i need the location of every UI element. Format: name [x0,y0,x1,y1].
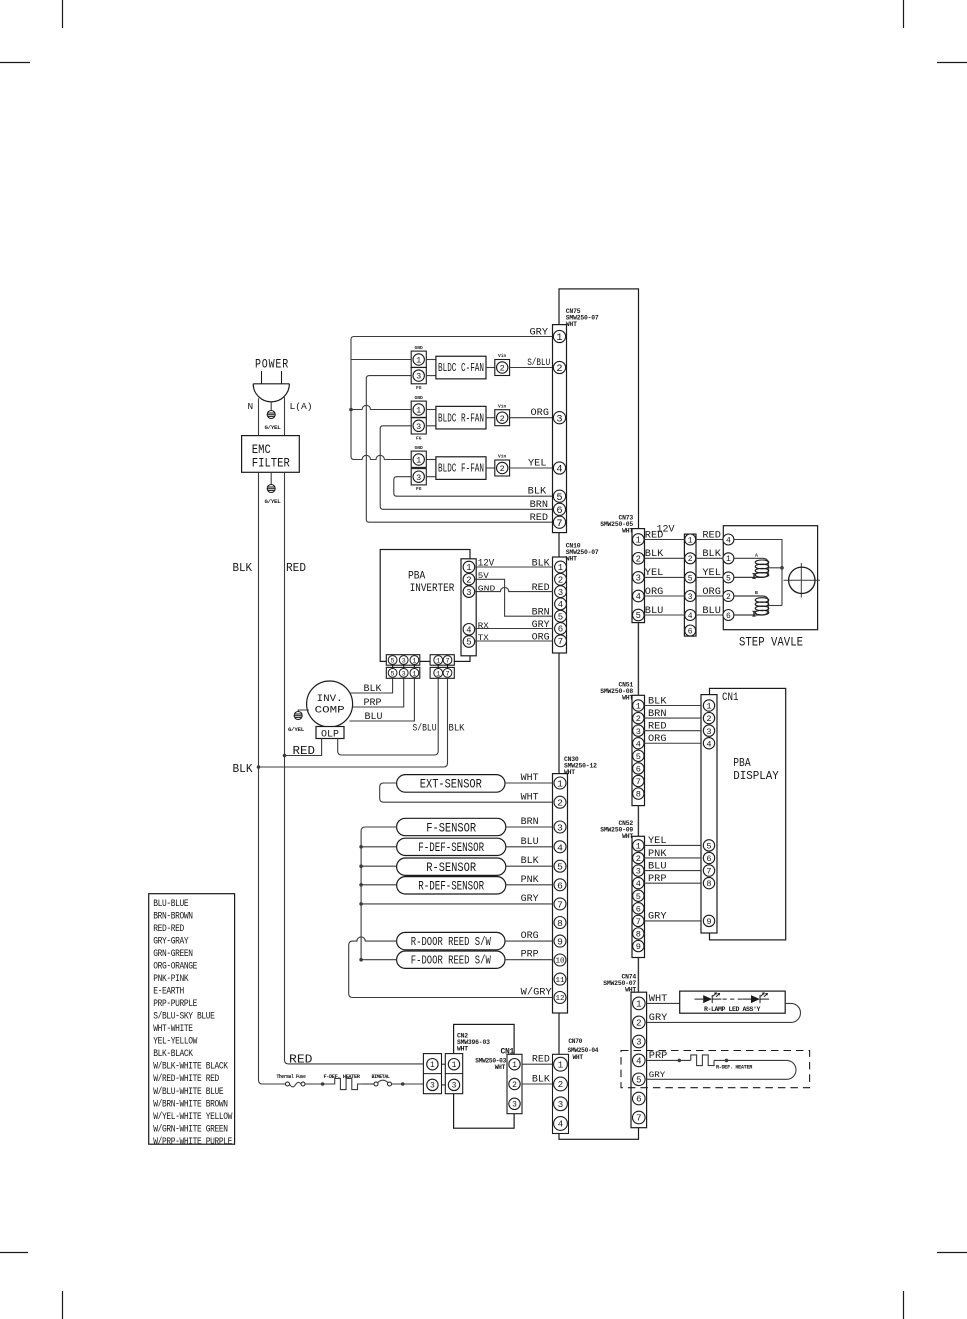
svg-text:BLU: BLU [648,860,667,871]
svg-text:STEP VAVLE: STEP VAVLE [739,636,803,650]
harness box CN2-CN1 [454,1024,514,1128]
svg-text:INV.: INV. [317,693,343,705]
wire RED OLP to supply [285,739,322,756]
svg-text:4: 4 [558,600,563,610]
wire color legend [149,894,235,1144]
svg-text:PRP: PRP [364,697,382,708]
svg-text:4: 4 [636,592,641,602]
svg-text:RED: RED [532,582,550,593]
svg-text:1: 1 [636,702,641,712]
svg-text:WHT: WHT [521,792,539,803]
R-LAMP LED assembly box [680,991,786,1013]
wire BLU compressor [350,678,415,721]
svg-text:RED: RED [286,562,306,575]
connector CN30 [553,774,568,1013]
sensor F-SENSOR [397,818,506,835]
svg-text:7: 7 [558,637,563,647]
svg-text:G/YEL: G/YEL [265,498,282,505]
power plug symbol [261,371,263,384]
svg-text:GRY: GRY [648,911,667,922]
svg-text:7: 7 [636,1114,641,1124]
svg-text:3: 3 [512,1101,517,1110]
wire GRY CN52-7 [645,920,702,922]
svg-text:3: 3 [466,588,471,598]
svg-text:7: 7 [706,867,711,877]
svg-text:5: 5 [636,752,641,762]
svg-text:RED: RED [289,1053,313,1067]
svg-text:WHT: WHT [564,769,575,776]
svg-text:3: 3 [416,422,421,432]
svg-text:2: 2 [500,364,505,374]
svg-text:3: 3 [416,372,421,382]
svg-text:1: 1 [416,406,421,416]
svg-text:2: 2 [636,714,641,724]
wire C-FAN FG to RED (CN75-7) [366,376,552,523]
svg-text:FG: FG [416,435,422,441]
wire BLK to thermal fuse [259,767,286,1084]
svg-text:7: 7 [445,658,449,666]
svg-text:7: 7 [636,917,641,927]
sensor common bus [361,827,397,960]
svg-text:2: 2 [556,363,562,375]
wire C-FAN GND branch [351,359,411,361]
svg-text:PRP: PRP [649,1050,668,1061]
svg-text:Thermal Fuse: Thermal Fuse [277,1073,307,1080]
wire F-DOOR common [361,959,397,961]
svg-text:R-DEF. HEATER: R-DEF. HEATER [716,1064,753,1071]
wire BLK CN73-2 [645,557,685,559]
PBA inverter box [380,550,470,662]
svg-text:YEL: YEL [645,567,664,578]
svg-text:8: 8 [636,790,641,800]
svg-text:2: 2 [636,1019,641,1029]
wire CN52 to CN74 [637,958,639,993]
BLDC F-FAN box [426,459,436,461]
svg-text:6: 6 [556,505,562,517]
svg-text:3: 3 [558,588,563,598]
inverter output connector row 1 [386,655,420,666]
svg-text:EXT-SENSOR: EXT-SENSOR [420,777,482,792]
connector CN10 [553,557,567,653]
svg-text:Vin: Vin [498,454,507,460]
svg-text:RED: RED [293,744,316,758]
wire GRY sensor common [361,903,552,905]
svg-text:BLU: BLU [365,711,383,722]
svg-text:WHT: WHT [566,556,577,563]
junction thermal fuse [321,1082,325,1086]
wire CN73 to CN51 [637,623,639,696]
wire CN51 to CN52 [637,806,639,837]
svg-text:R-SENSOR: R-SENSOR [426,860,476,875]
svg-text:GND: GND [415,445,424,451]
svg-text:CN1: CN1 [722,692,739,704]
svg-text:WHT-WHITE: WHT-WHITE [153,1023,193,1034]
svg-text:3: 3 [636,1038,641,1048]
wire S/BLU OLP [338,678,439,755]
svg-text:2: 2 [500,464,505,474]
svg-text:ORG: ORG [532,632,550,643]
svg-text:3: 3 [416,473,421,483]
wire R-FAN FG to BRN (CN75-6) [380,426,552,510]
svg-text:3: 3 [558,1100,563,1110]
svg-text:BLK-BLACK: BLK-BLACK [153,1048,193,1059]
svg-text:RED: RED [645,529,664,540]
svg-text:S/BLU: S/BLU [413,723,437,734]
svg-text:PRP-PURPLE: PRP-PURPLE [153,998,197,1009]
svg-text:GRY: GRY [649,1012,668,1023]
svg-text:4: 4 [556,464,562,476]
connector CN74 [631,992,647,1127]
svg-text:6: 6 [706,854,711,864]
svg-text:4: 4 [688,612,693,621]
switch F-DOOR REED S/W [397,951,505,968]
svg-text:BLK: BLK [532,1074,550,1085]
svg-text:Vin: Vin [498,403,507,409]
sensor EXT-SENSOR [397,775,505,793]
svg-text:1: 1 [636,536,641,546]
svg-text:S/BLU: S/BLU [527,357,550,368]
svg-text:7: 7 [557,899,563,910]
svg-text:3: 3 [430,1082,435,1091]
BLDC C-FAN box [426,359,436,361]
svg-text:3: 3 [636,867,641,877]
svg-text:RED: RED [532,1054,550,1065]
wire R-FAN Vin ORG [510,417,553,419]
svg-text:3: 3 [636,574,641,584]
wire RED vertical [284,472,286,755]
svg-text:9: 9 [557,937,563,948]
svg-text:W/GRY: W/GRY [521,987,552,998]
svg-text:S/BLU-SKY BLUE: S/BLU-SKY BLUE [153,1011,215,1022]
wire F-FAN Vin YEL [510,467,553,469]
svg-text:WHT: WHT [573,1054,584,1061]
svg-text:2: 2 [557,798,563,809]
svg-text:PNK: PNK [648,848,667,859]
svg-text:8: 8 [636,930,641,940]
wire BLK R-SENSOR [506,865,553,867]
wire R-FAN GND branch [351,405,411,409]
svg-text:4: 4 [706,739,711,749]
svg-text:1: 1 [636,841,641,851]
svg-text:BLK: BLK [521,855,539,866]
LED D1 [695,998,704,1000]
wire PRP R-DEF heater [647,1059,691,1061]
wire 5V to BRN [475,579,553,616]
wire PNK R-DEF-SENSOR [506,884,553,886]
wire RX GRY [475,628,553,630]
svg-text:GRY: GRY [521,893,539,904]
svg-text:4: 4 [636,1057,641,1067]
svg-text:ORG: ORG [702,586,721,597]
svg-text:PBA: PBA [733,757,750,770]
svg-text:YEL: YEL [528,458,547,469]
wire WHT R-LAMP [647,1002,680,1004]
compressor INV.COMP [307,681,353,727]
svg-text:W/BLK-WHITE BLACK: W/BLK-WHITE BLACK [153,1061,228,1072]
svg-text:ORG: ORG [648,733,667,744]
svg-text:BLK: BLK [233,562,253,575]
svg-text:1: 1 [558,563,563,573]
svg-text:2: 2 [706,714,711,724]
svg-text:BLU: BLU [702,605,721,616]
svg-text:3: 3 [706,727,711,737]
svg-text:BLK: BLK [648,695,667,706]
BLDC C-FAN Vin connector [486,367,495,369]
svg-text:G/YEL: G/YEL [265,424,282,431]
svg-text:4: 4 [558,1120,563,1130]
OLP box [316,727,344,739]
wire RED CN73-1 [645,539,685,541]
svg-text:A: A [755,553,758,559]
wire BRN F-SENSOR [506,826,553,828]
svg-text:1: 1 [466,563,471,573]
wire CN2 mating [442,1063,446,1065]
connector CN52 [632,836,645,957]
svg-text:BRN-BROWN: BRN-BROWN [153,910,193,921]
wire RED to CN2 [285,756,424,1064]
svg-text:2: 2 [636,554,641,564]
wire RED CN1-CN70 [522,1063,553,1065]
svg-text:INVERTER: INVERTER [410,583,455,595]
svg-text:E-EARTH: E-EARTH [153,986,184,997]
svg-text:6: 6 [636,764,641,774]
svg-text:7: 7 [445,670,449,678]
wire BLK CN1-CN70 [522,1083,553,1085]
svg-text:FILTER: FILTER [252,457,290,471]
svg-text:1: 1 [436,670,440,678]
svg-text:10: 10 [555,958,565,966]
wire N to EMC filter [258,398,260,435]
EMC filter box [242,436,300,473]
svg-text:BLU: BLU [645,605,664,616]
svg-text:5: 5 [688,574,693,583]
svg-text:GRY-GRAY: GRY-GRAY [153,935,188,946]
svg-text:1: 1 [452,1061,457,1070]
svg-text:6: 6 [726,612,731,621]
svg-text:PBA: PBA [408,571,426,583]
svg-text:BRN: BRN [532,607,550,618]
svg-text:12: 12 [555,995,565,1003]
wire YEL CN73-3 [645,576,685,578]
thermal fuse R-DEF [691,1055,714,1066]
svg-text:1: 1 [436,658,440,666]
step valve harness connector [684,534,696,636]
svg-text:3: 3 [557,822,563,833]
svg-text:BLK: BLK [532,558,550,569]
svg-text:W/BLU-WHITE BLUE: W/BLU-WHITE BLUE [153,1086,224,1097]
EMC ground G/YEL [267,485,275,493]
svg-text:BIMETAL: BIMETAL [372,1073,391,1080]
svg-text:WHT: WHT [495,1064,506,1071]
wire BLU F-DEF-SENSOR [506,846,553,848]
svg-text:2: 2 [688,555,693,564]
wire TX ORG [475,640,553,642]
svg-text:1: 1 [412,670,416,678]
wire PRP CN52 [645,882,702,884]
svg-text:COMP: COMP [315,705,345,717]
svg-text:6: 6 [636,904,641,914]
svg-text:1: 1 [556,332,562,344]
wire ORG CN51 [645,742,702,744]
svg-text:WHT: WHT [622,528,633,535]
svg-text:WHT: WHT [622,833,633,840]
wire PRP compressor [353,678,404,707]
svg-text:RED: RED [648,720,667,731]
sensor R-SENSOR [397,858,506,875]
svg-text:5: 5 [636,611,641,621]
svg-text:R-DEF-SENSOR: R-DEF-SENSOR [418,879,484,894]
svg-text:BLK: BLK [702,548,721,559]
svg-text:RED: RED [530,512,549,523]
svg-text:W/PRP-WHITE PURPLE: W/PRP-WHITE PURPLE [153,1136,232,1147]
svg-text:WHT: WHT [521,772,539,783]
plug earth wire [270,402,272,411]
svg-text:5: 5 [391,658,395,666]
LED D2 [742,998,751,1000]
svg-text:BRN: BRN [648,708,667,719]
svg-text:4: 4 [636,879,641,889]
wire GRY R-LAMP return [647,1003,801,1022]
step valve box [723,526,817,630]
wire ORG CN73-4 [645,595,685,597]
svg-text:5: 5 [557,862,563,873]
svg-text:1: 1 [557,778,563,789]
step valve coil A [734,558,768,577]
svg-text:POWER: POWER [255,358,289,372]
svg-text:GRY: GRY [532,619,550,630]
svg-text:GND: GND [478,586,496,594]
svg-text:PNK: PNK [521,874,539,885]
svg-text:1: 1 [430,1061,435,1070]
svg-text:BRN: BRN [521,816,539,827]
wire GND RED with hop [475,587,553,591]
svg-text:BLU: BLU [521,836,539,847]
compressor ground G/YEL [298,710,309,712]
wire BLU CN52 [645,870,702,872]
svg-text:2: 2 [726,593,731,602]
plug ground G/YEL [267,411,275,419]
connector CN2 plug [423,1054,441,1094]
svg-text:7: 7 [556,518,562,530]
svg-text:11: 11 [555,977,565,985]
R-DEF heater dashed enclosure [621,1051,810,1088]
svg-text:W/BRN-WHITE BROWN: W/BRN-WHITE BROWN [153,1098,228,1109]
step valve rotor [784,579,821,581]
svg-text:BLDC R-FAN: BLDC R-FAN [438,412,484,425]
svg-text:GND: GND [415,345,424,351]
svg-text:5: 5 [726,574,731,583]
svg-text:5: 5 [556,492,562,504]
junction R-FAN GND [349,408,353,412]
PBA inverter connector [461,559,476,656]
svg-text:5: 5 [391,670,395,678]
svg-text:F-DOOR REED S/W: F-DOOR REED S/W [411,954,492,968]
connector CN75 [553,325,567,533]
BLDC R-FAN Vin connector [486,417,495,419]
svg-text:5: 5 [636,892,641,902]
wire WHT EXT-SENSOR [505,782,553,784]
svg-text:4: 4 [636,739,641,749]
svg-text:7: 7 [636,777,641,787]
svg-text:F-SENSOR: F-SENSOR [426,820,476,835]
BLDC R-FAN box [426,409,436,411]
svg-text:RX: RX [478,621,489,631]
svg-text:1: 1 [706,702,711,712]
sensor R-DEF-SENSOR [397,877,506,894]
svg-text:WHT: WHT [625,987,636,994]
svg-text:R-DOOR REED S/W: R-DOOR REED S/W [411,935,492,949]
svg-text:6: 6 [636,1095,641,1105]
svg-text:BRN: BRN [530,499,549,510]
svg-text:FG: FG [416,486,422,492]
wire GRY bus (CN75-1 to fans GND) [351,337,553,460]
svg-text:W/RED-WHITE RED: W/RED-WHITE RED [153,1073,219,1084]
svg-text:2: 2 [558,576,563,586]
svg-text:5: 5 [706,841,711,851]
connector CN51 [632,695,645,805]
junction bimetal out [401,1082,405,1086]
svg-text:5: 5 [558,612,563,622]
svg-text:1: 1 [412,658,416,666]
svg-text:ORG: ORG [521,930,539,941]
wire BLK compressor [350,678,393,693]
PBA main board outline [559,289,639,1139]
wire YEL CN52 [645,844,702,846]
sensor F-DEF-SENSOR [397,838,506,855]
svg-text:2: 2 [558,1080,563,1090]
svg-text:ORG-ORANGE: ORG-ORANGE [153,960,197,971]
R-DEF heater element [647,1060,796,1079]
svg-text:WHT: WHT [649,993,668,1004]
svg-text:BLK: BLK [233,762,254,776]
svg-text:6: 6 [558,625,563,635]
svg-text:CN70: CN70 [568,1038,582,1045]
svg-text:L(A): L(A) [290,401,313,412]
svg-text:6: 6 [688,627,693,636]
wire RED CN51 [645,730,702,732]
svg-text:3: 3 [556,413,562,425]
svg-text:W/YEL-WHITE YELLOW: W/YEL-WHITE YELLOW [153,1111,232,1122]
inverter output connector row 2 [386,667,420,678]
svg-text:8: 8 [706,879,711,889]
svg-text:PNK-PINK: PNK-PINK [153,973,188,984]
wire PRP F-DOOR [505,959,553,961]
wire BRN CN51 [645,717,702,719]
wire W/GRY R-DOOR to CN30-12 [349,937,553,998]
svg-text:F-DEF. HEATER: F-DEF. HEATER [324,1073,361,1080]
svg-text:4: 4 [557,842,563,853]
svg-text:GRY: GRY [530,327,549,338]
svg-text:YEL: YEL [648,835,667,846]
connector CN73 [632,529,645,623]
svg-text:2: 2 [512,1081,517,1090]
svg-text:GRY: GRY [649,1072,666,1080]
svg-text:WHT: WHT [566,321,577,328]
svg-text:PRP: PRP [521,949,539,960]
svg-text:3: 3 [636,727,641,737]
wire C-FAN Vin S/BLU [510,367,553,369]
svg-text:3: 3 [688,593,693,602]
svg-text:1: 1 [416,456,421,466]
svg-text:BLK: BLK [645,548,664,559]
svg-text:YEL: YEL [702,567,721,578]
step valve coil B [734,596,768,615]
svg-text:ORG: ORG [645,586,664,597]
svg-text:1: 1 [726,555,731,564]
svg-text:3: 3 [402,658,406,666]
svg-text:G/YEL: G/YEL [288,726,305,733]
wire step valve common [734,540,782,606]
